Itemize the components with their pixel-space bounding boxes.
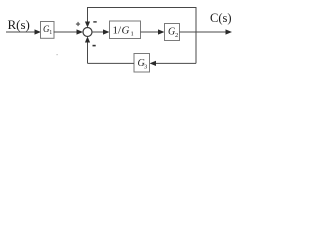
svg-text:1: 1 [131, 31, 134, 38]
svg-text:3: 3 [144, 64, 147, 71]
svg-text:G: G [122, 25, 130, 37]
svg-text:1: 1 [49, 30, 52, 36]
svg-text:2: 2 [175, 32, 178, 39]
svg-text:R(s): R(s) [8, 17, 30, 32]
svg-text:C(s): C(s) [210, 11, 232, 25]
